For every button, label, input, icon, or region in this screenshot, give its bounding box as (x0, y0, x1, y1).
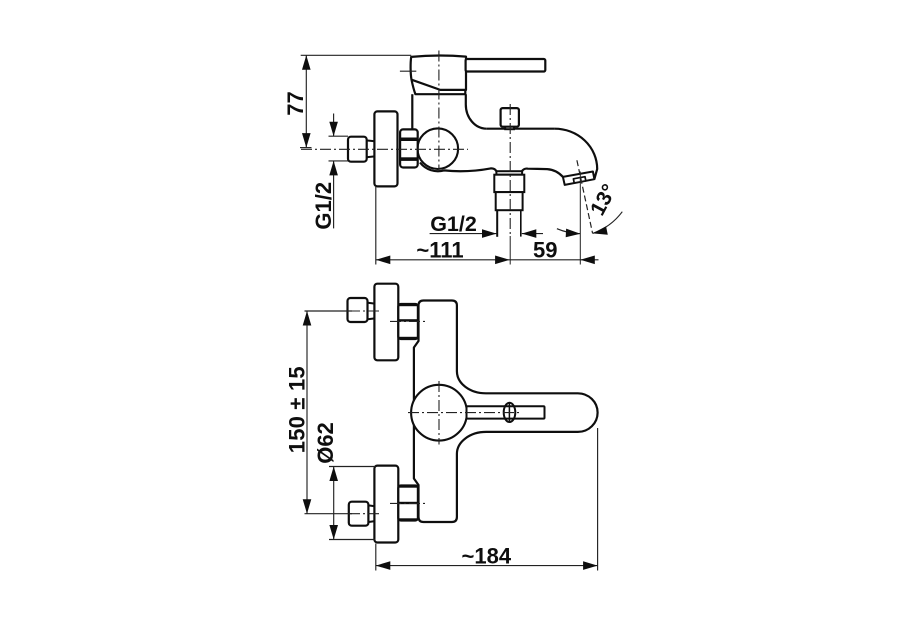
svg-text:G1/2: G1/2 (430, 212, 477, 236)
svg-text:~111: ~111 (416, 237, 463, 262)
svg-text:G1/2: G1/2 (311, 182, 336, 230)
svg-text:59: 59 (533, 237, 557, 262)
svg-text:~184: ~184 (462, 544, 512, 569)
svg-text:77: 77 (283, 91, 308, 115)
svg-text:Ø62: Ø62 (313, 422, 338, 464)
svg-text:150 ± 15: 150 ± 15 (285, 366, 310, 453)
